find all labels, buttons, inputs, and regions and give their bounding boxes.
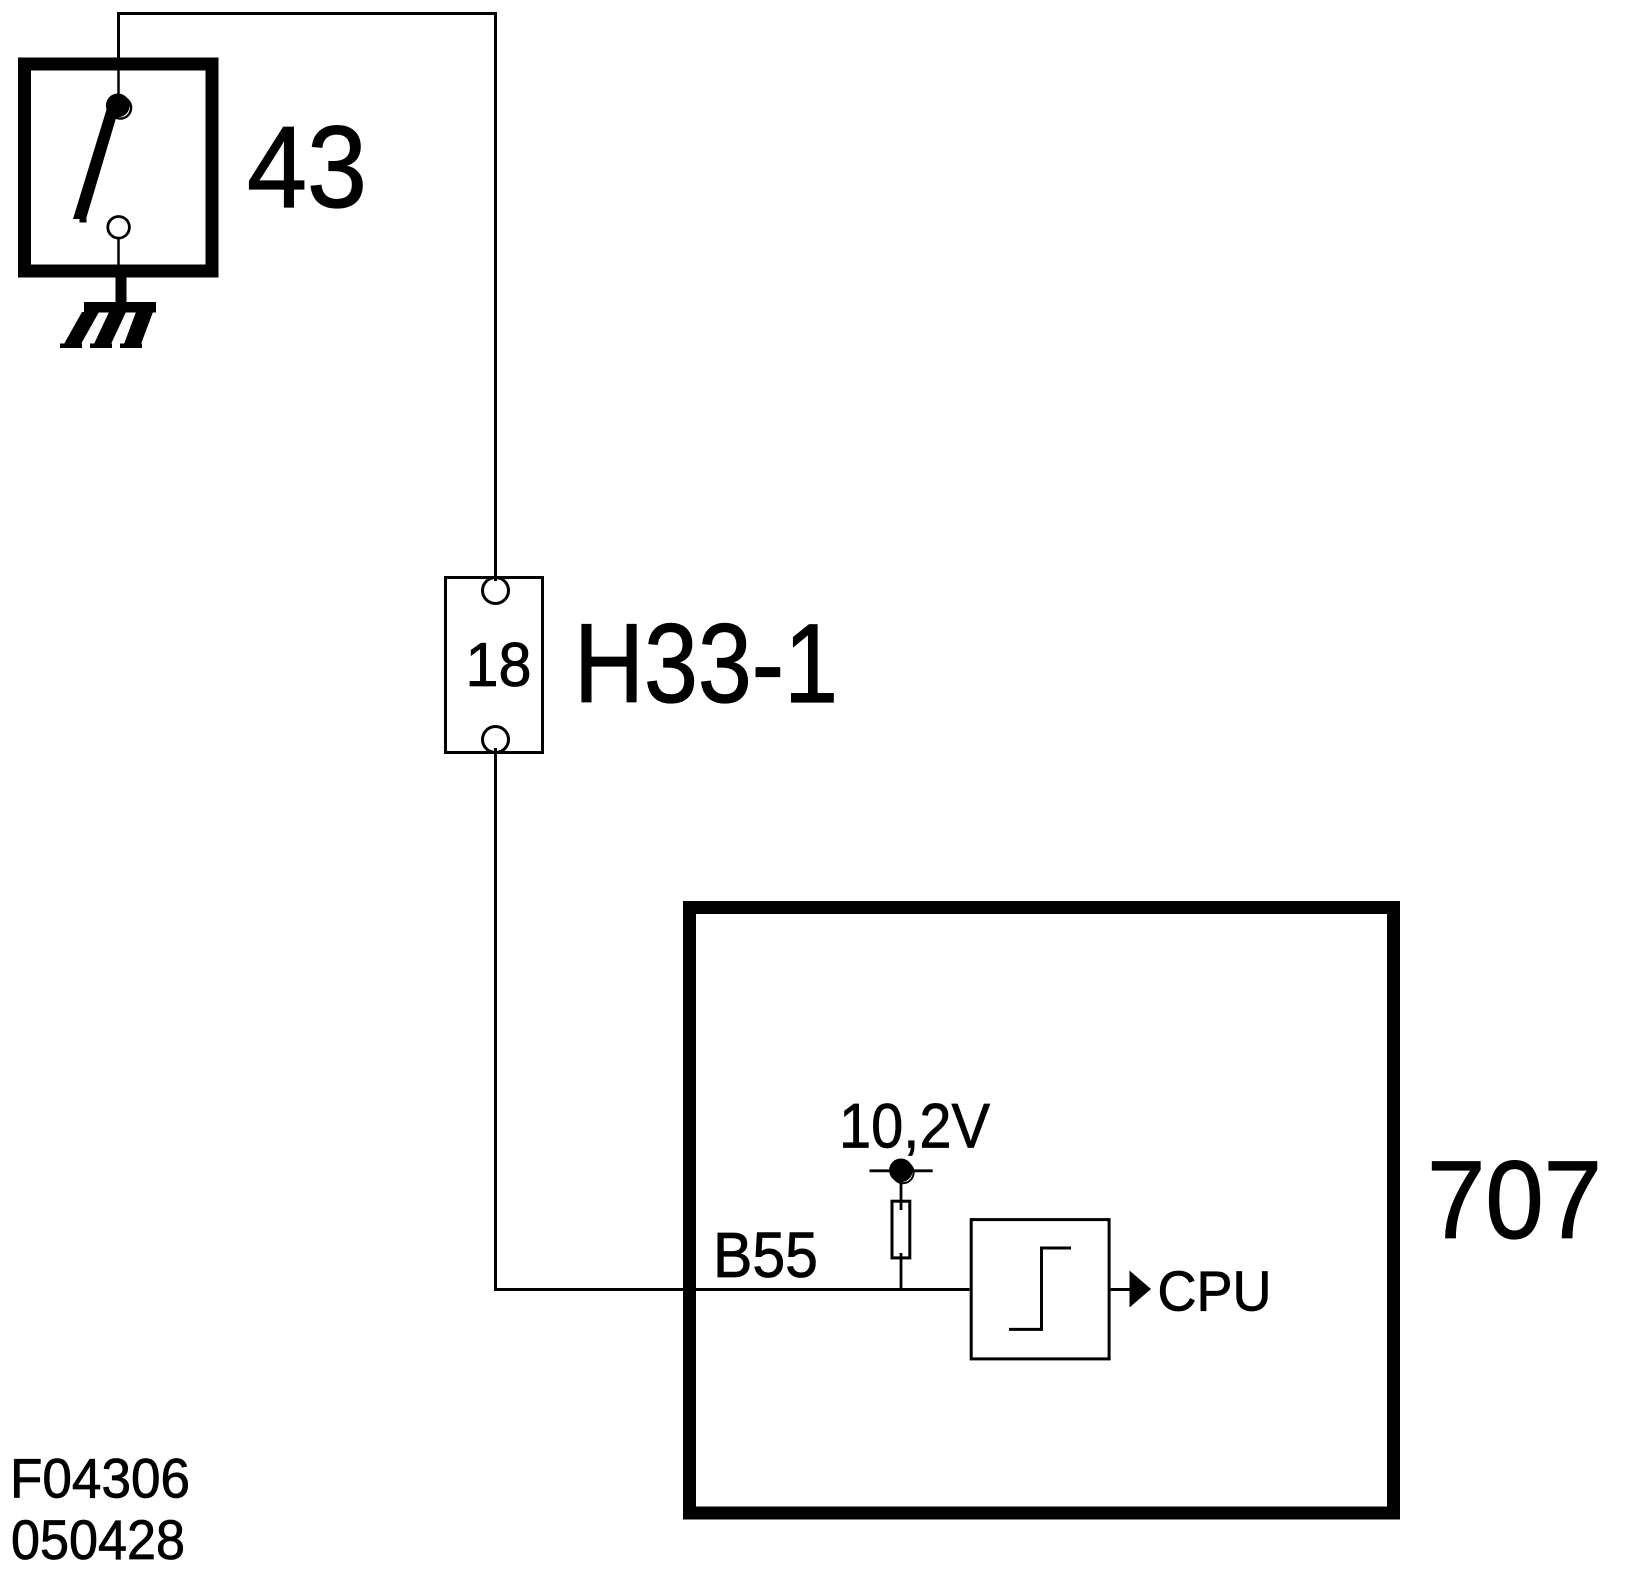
ground leg left [64,312,99,344]
schmitt trigger box U1 [971,1220,1109,1359]
ground leg middle [94,312,126,344]
svg-text:B55: B55 [713,1219,818,1291]
connector pin circle top [483,578,509,604]
resistor R (pull-up) [892,1201,910,1258]
switch contact dot (top) [106,94,130,118]
ECU box 707 [690,908,1394,1514]
wire stub inside switch box bottom [117,238,120,271]
ground foot middle [90,344,112,349]
wire resistor to input line [900,1253,903,1290]
node dot 10,2V [889,1159,913,1183]
switch terminal circle (top, thin outline) [110,97,132,119]
arrow to CPU [1130,1271,1152,1308]
svg-text:F04306: F04306 [10,1448,190,1510]
svg-text:CPU: CPU [1158,1260,1272,1323]
ground foot left [60,344,82,349]
wire schmitt output [1111,1288,1132,1291]
svg-text:H33-1: H33-1 [574,600,838,726]
svg-text:050428: 050428 [11,1509,185,1571]
svg-text:707: 707 [1427,1139,1602,1262]
ground bar [84,302,156,313]
wire stub into top pin circle [494,573,497,581]
switch terminal circle (bottom) [108,217,130,239]
wire from connector H33-1 to ECU 707 input B55 [496,752,970,1290]
switch box 43 [25,64,213,271]
schmitt trigger step symbol [1009,1248,1071,1329]
switch lever [73,103,121,219]
svg-text:10,2V: 10,2V [839,1092,990,1162]
ground stub below switch box [116,271,127,303]
wire node to resistor [900,1170,903,1210]
wire stub into bottom pin circle [494,748,497,756]
wire stub inside switch box top [117,64,120,106]
ground leg right [124,312,153,344]
wire from switch 43 top to connector H33-1 [119,14,496,577]
ground foot right [120,344,142,349]
svg-text:43: 43 [247,102,367,232]
node tick line at 10,2V [870,1169,933,1172]
node terminal circle (thin outline) [892,1162,913,1183]
svg-text:18: 18 [466,631,532,700]
connector pin circle bottom [483,727,509,753]
connector H33-1 body [446,578,543,753]
